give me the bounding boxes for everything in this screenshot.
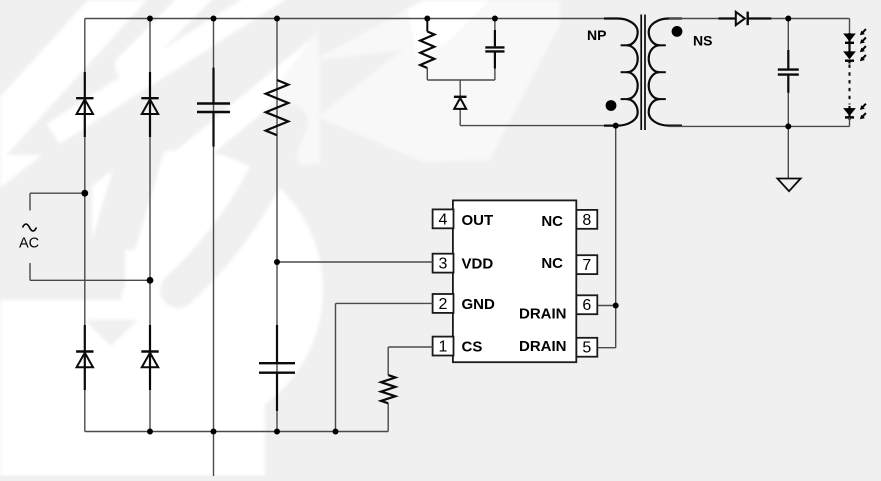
svg-text:VDD: VDD (462, 255, 494, 272)
diode D1 (84, 72, 86, 137)
capacitor C2 (276, 325, 278, 362)
diode D2 (149, 72, 151, 137)
svg-text:8: 8 (582, 212, 591, 229)
node AC bottom (147, 277, 154, 284)
svg-text:2: 2 (439, 296, 448, 313)
wire top rail (85, 18, 619, 20)
node AC top (81, 190, 88, 197)
wire left vertical (84, 19, 86, 432)
wire LED string top (849, 19, 851, 35)
svg-text:GND: GND (462, 296, 496, 313)
wire CS (388, 346, 432, 348)
diode D4 (149, 325, 151, 390)
pin 8 box (576, 210, 597, 229)
wire AC top lead (30, 192, 85, 194)
svg-text:5: 5 (582, 340, 591, 357)
node secondary bottom junction (785, 123, 791, 129)
svg-text:6: 6 (582, 297, 591, 314)
svg-text:7: 7 (582, 257, 591, 274)
LED2 (844, 52, 855, 59)
AC source label (23, 224, 37, 231)
node VDD junction (274, 259, 280, 265)
svg-text:DRAIN: DRAIN (519, 305, 567, 322)
wire vertical 3 (213, 19, 215, 477)
capacitor C1 (212, 68, 214, 103)
svg-text:4: 4 (439, 211, 448, 228)
wire snubber bottom (426, 19, 428, 32)
wire GND (336, 302, 433, 304)
pin 5 box (576, 338, 597, 357)
diode D5 output (718, 17, 735, 19)
wire pin5 (597, 347, 616, 349)
svg-text:CS: CS (462, 338, 483, 355)
wire LED dotted (849, 65, 851, 105)
wire LED string bottom (849, 117, 851, 126)
wire AC bottom lead (30, 279, 150, 281)
svg-text:NC: NC (541, 213, 563, 230)
wire vertical 4 (276, 19, 278, 432)
capacitor C4 (787, 19, 789, 51)
diode D3 (84, 325, 86, 390)
LED1 (848, 33, 850, 53)
pin 7 box (576, 255, 597, 274)
node top-rail junctions (147, 16, 153, 22)
svg-text:DRAIN: DRAIN (519, 338, 567, 355)
wire secondary bottom (669, 125, 850, 127)
pin 6 box (576, 295, 597, 314)
svg-text:1: 1 (439, 339, 448, 356)
node drain junction (613, 303, 619, 309)
node primary bottom junction (613, 123, 619, 129)
transformer primary NP winding (604, 19, 638, 126)
node output junction (785, 16, 791, 22)
LED3 (848, 106, 850, 120)
wire bottom rail (85, 431, 388, 433)
secondary phase dot (672, 26, 683, 37)
wire vertical 2 (149, 19, 151, 432)
svg-text:3: 3 (439, 256, 448, 273)
diode D6 clamp (459, 80, 461, 97)
pin 4 box (433, 209, 454, 228)
wire pin6 (597, 305, 616, 307)
resistor R1 (266, 80, 289, 135)
resistor R2 (420, 32, 434, 69)
svg-text:OUT: OUT (462, 212, 494, 229)
resistor R3 CS (381, 375, 395, 403)
node bottom-rail junctions (147, 429, 153, 435)
transformer core (640, 15, 642, 131)
wire secondary top (669, 18, 719, 20)
svg-text:NC: NC (541, 255, 563, 272)
IC U1 body (453, 200, 576, 362)
wire drain vertical (615, 126, 617, 348)
pin 3 box (433, 254, 454, 273)
wire VDD (277, 261, 433, 263)
pin 1 box (433, 337, 454, 356)
svg-text:NP: NP (587, 27, 606, 43)
capacitor C3 (494, 30, 496, 46)
svg-text:AC: AC (19, 235, 39, 251)
pin 2 box (433, 294, 454, 313)
wire primary bottom (460, 125, 619, 127)
transformer secondary NS winding (649, 19, 682, 126)
svg-text:NS: NS (693, 32, 712, 48)
primary phase dot (606, 100, 617, 111)
ground (787, 126, 789, 178)
wire to output node (771, 18, 849, 20)
